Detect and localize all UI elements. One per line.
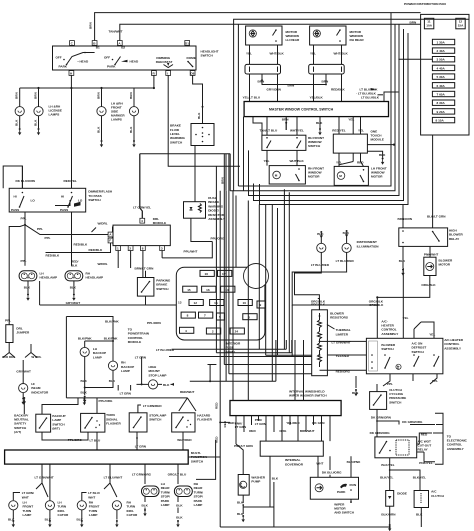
svg-text:PPL/WHT: PPL/WHT (184, 249, 198, 253)
svg-text:PUMP: PUMP (251, 480, 260, 484)
wire PPL horizontal to DRL area (9, 225, 25, 262)
node junction dots on bus (37, 87, 39, 89)
svg-text:YEL: YEL (429, 333, 435, 337)
turn signal flasher box (81, 413, 105, 432)
svg-text:BLK: BLK (81, 391, 88, 395)
svg-text:BLK: BLK (272, 477, 279, 481)
wire central vertical V216 (216, 166, 291, 353)
fuse 9 20A (432, 109, 454, 114)
svg-text:PPL: PPL (21, 259, 27, 263)
svg-text:RED: RED (249, 429, 256, 433)
svg-text:5 30A: 5 30A (437, 75, 446, 79)
svg-text:DK BLU/ORG: DK BLU/ORG (322, 470, 342, 474)
svg-text:MOTOR: MOTOR (308, 174, 320, 178)
wire panel crossing verticals (235, 196, 237, 268)
wire BRN riser D8 to bundle (225, 191, 227, 382)
svg-text:PNK/YEL -: PNK/YEL - (419, 461, 434, 465)
lamp front side marker RH (129, 107, 138, 116)
svg-text:RELAY: RELAY (418, 448, 429, 452)
bracket for electronic control assembly (435, 413, 443, 464)
svg-text:2: 2 (129, 246, 131, 250)
wire parking brake leads (145, 271, 147, 305)
svg-text:YEL: YEL (246, 52, 252, 56)
svg-text:PARK: PARK (337, 490, 346, 494)
svg-text:7: 7 (204, 314, 206, 318)
wire run y349 (172, 340, 287, 349)
wire lamp grounds with BLK labels (19, 116, 21, 128)
svg-text:24: 24 (235, 330, 239, 334)
svg-text:7 60A: 7 60A (437, 93, 446, 97)
svg-text:LT BLU/RED: LT BLU/RED (311, 263, 330, 267)
fuse 11 10A (424, 18, 433, 29)
svg-text:(M/T): (M/T) (52, 427, 59, 431)
svg-text:LT GRN/WHT: LT GRN/WHT (332, 341, 351, 345)
terminal 4 on DRL module (140, 218, 145, 223)
fuse 5 30A (432, 74, 454, 79)
svg-text:YEL: YEL (403, 316, 409, 320)
fuse 8 (181, 312, 195, 318)
svg-text:8: 8 (142, 246, 144, 250)
lamp LH TURN INDICATOR (45, 501, 54, 510)
fuse 10 (238, 300, 252, 306)
wire BLK/YEL below relay (389, 458, 391, 491)
wire inner frame (237, 24, 239, 186)
svg-text:YEL/RED: YEL/RED (336, 354, 350, 358)
wire BRN to right (285, 123, 287, 130)
wire RH rear connector to master switch (314, 74, 342, 102)
fuse 2 (243, 314, 257, 320)
interior fuse panel box (176, 267, 265, 340)
connector RH rear (309, 64, 345, 74)
svg-text:TAN/WHT: TAN/WHT (109, 30, 123, 34)
parking brake switch box (137, 278, 154, 297)
wire feed bus into hazard flasher (66, 397, 187, 399)
wire RED/BLK from dimmer (71, 212, 73, 266)
svg-text:16: 16 (206, 288, 210, 292)
svg-text:BRN: BRN (258, 79, 265, 83)
svg-text:ORG: ORG (279, 429, 287, 433)
lamp LH BACKUP (80, 347, 89, 356)
svg-text:M: M (275, 174, 278, 178)
svg-text:LT GRN/WHT: LT GRN/WHT (35, 475, 54, 479)
headlamp LH (19, 271, 37, 281)
fuse 9 (257, 301, 265, 308)
terminal D8 (190, 71, 195, 76)
fuse 2 40A (432, 48, 454, 53)
svg-text:BLK/LT GRN: BLK/LT GRN (427, 215, 446, 219)
wire wiper motor ground (350, 499, 352, 503)
defrost switch contacts (413, 354, 415, 356)
fuse 1 30A (432, 39, 454, 44)
lamp HI BEAM INDICATOR (19, 384, 28, 393)
svg-text:ORG/BLK: ORG/BLK (311, 299, 326, 303)
wire + ground RH front turn (81, 510, 83, 520)
svg-text:WHT/RED: WHT/RED (177, 438, 192, 442)
wire BRN riser from headlight switch B to top bus (95, 13, 421, 41)
lamp instrument illumination 1 (317, 243, 326, 252)
svg-text:BRN: BRN (129, 92, 133, 99)
svg-text:SWITCH: SWITCH (88, 198, 101, 202)
wire rear lamp grounds (144, 497, 146, 503)
wire LT BLU/BLK into master switch (384, 92, 398, 102)
svg-text:BLK/PNK: BLK/PNK (105, 320, 120, 324)
wire ORG/BLK junction down (376, 296, 378, 298)
svg-text:2 40A: 2 40A (437, 49, 446, 53)
wire 292 continues down (291, 305, 293, 357)
wire from brake fluid switch down to dual brake assembly (194, 146, 196, 202)
svg-text:3 50A: 3 50A (437, 58, 446, 62)
wire BLK/PNK riser + backup lamp feeds (66, 317, 113, 398)
svg-text:RED/WHT: RED/WHT (180, 390, 195, 394)
svg-text:10A: 10A (426, 24, 432, 28)
wire lamp bus (20, 87, 134, 89)
svg-text:15: 15 (187, 288, 191, 292)
svg-text:MASTER WINDOW CONTROL SWITC: MASTER WINDOW CONTROL SWITCH (269, 108, 334, 112)
wire left margin riser (3, 166, 22, 188)
wire license lamp 2 lead (38, 88, 40, 107)
svg-text:DOME: DOME (187, 56, 196, 60)
wire BRN vertical mid (225, 154, 227, 191)
svg-text:DK GRN: DK GRN (312, 421, 325, 425)
wire from AC heater to clutch switch (376, 384, 378, 392)
svg-text:PPL: PPL (21, 217, 27, 221)
wire nested frame lines bottom of window section (238, 13, 391, 186)
svg-text:10: 10 (243, 301, 247, 305)
svg-text:RELAY: RELAY (449, 237, 460, 241)
terminal D1 (185, 41, 190, 46)
wire marker lamp 1 lead (101, 88, 103, 107)
wire LT GRN below stoplamp (136, 432, 138, 450)
svg-text:BRN: BRN (33, 92, 37, 99)
svg-text:4: 4 (141, 219, 143, 223)
wire hi beam ground (22, 393, 24, 398)
svg-text:RED/YEL: RED/YEL (64, 179, 78, 183)
svg-text:GRY/WHT: GRY/WHT (16, 370, 31, 374)
svg-text:BLK: BLK (237, 501, 244, 505)
svg-text:BLK/YEL: BLK/YEL (381, 463, 394, 467)
fuse 2b (206, 328, 220, 334)
rear lamp LH (stadium) (142, 486, 160, 497)
dual brake warning diode/resistor assembly box (184, 202, 206, 219)
svg-text:YEL/LT BLU: YEL/LT BLU (243, 96, 261, 100)
svg-text:PPL: PPL (5, 319, 11, 323)
svg-text:B1: B1 (96, 46, 100, 50)
wire instrument lamp 2 routing (292, 258, 377, 305)
fuse 12 15A (456, 18, 465, 29)
wire license lamp 1 lead (19, 88, 21, 107)
fuse 16b (202, 286, 216, 292)
wire PPL down to headlamp (24, 225, 26, 266)
svg-text:BRN: BRN (322, 79, 329, 83)
svg-text:ASSEMBLY: ASSEMBLY (381, 332, 399, 336)
svg-text:GOVERNOR: GOVERNOR (285, 462, 304, 466)
stoplamp switch box (129, 413, 147, 432)
fuse 24 (230, 328, 244, 334)
svg-text:LT BLU/WHT: LT BLU/WHT (104, 475, 123, 479)
wire washer link (243, 506, 274, 508)
svg-text:HI: HI (14, 195, 17, 199)
svg-text:RED/YEL: RED/YEL (332, 128, 346, 132)
wire to hi beam indicator (22, 360, 24, 384)
wire run y364 left tail (208, 364, 217, 366)
svg-text:12: 12 (194, 301, 198, 305)
terminal A (117, 41, 122, 46)
headlamp RH (65, 271, 83, 281)
svg-text:PPL/ORG: PPL/ORG (68, 438, 83, 442)
fuse 12 (189, 300, 203, 306)
svg-text:BLK: BLK (142, 504, 149, 508)
wire BLK ground left of box (355, 376, 357, 388)
clutch cycling pressure switch box (370, 392, 387, 410)
blower motor box (424, 257, 436, 275)
svg-text:WHT/BLK: WHT/BLK (334, 52, 349, 56)
fuse 16 (200, 270, 214, 276)
svg-text:W/DRL: W/DRL (98, 222, 108, 226)
svg-text:MODULE: MODULE (371, 138, 384, 142)
svg-text:13: 13 (178, 301, 182, 305)
wire headlamp grounds (27, 281, 29, 294)
wire RED/ORG tap (320, 369, 367, 371)
svg-text:1: 1 (117, 246, 119, 250)
svg-text:MOTOR: MOTOR (371, 175, 383, 179)
svg-text:YEL/RED: YEL/RED (286, 421, 300, 425)
wire horizontal link under brake fluid (140, 153, 230, 155)
DRL terminals below (116, 246, 121, 251)
svg-text:YEL: YEL (336, 161, 342, 165)
svg-text:DIODE: DIODE (397, 491, 407, 495)
wire PPL from dimmer to headlamps (24, 212, 26, 227)
motor window RH rear box (310, 26, 346, 45)
svg-text:SWITCH: SWITCH (308, 144, 321, 148)
wire YEL/RED tap (327, 354, 366, 356)
terminal C (70, 41, 75, 46)
svg-text:LT GRN: LT GRN (235, 425, 247, 429)
svg-text:W/DRL: W/DRL (98, 262, 108, 266)
svg-text:BLK: BLK (33, 119, 37, 126)
power distribution box outline (421, 14, 469, 135)
connector LH rear (245, 64, 281, 74)
svg-text:YEL: YEL (264, 159, 270, 163)
svg-text:INDICATOR: INDICATOR (31, 390, 49, 394)
svg-text:POWER DISTRIBUTION BOX: POWER DISTRIBUTION BOX (404, 2, 447, 6)
svg-text:PASS: PASS (11, 208, 19, 212)
wire flasher feed (96, 398, 98, 414)
wire GRY/WHT left drop (39, 281, 41, 305)
backup lamp switch box (36, 414, 51, 432)
wire run y381 (190, 340, 276, 381)
wire LT GRN/YEL riser to DRL module (140, 154, 143, 219)
svg-text:ASSEMBLY: ASSEMBLY (444, 346, 462, 350)
high blower relay box (399, 228, 448, 247)
svg-text:SWITCH: SWITCH (149, 418, 162, 422)
svg-text:LT BLU/RED: LT BLU/RED (156, 348, 175, 352)
lamp RH TURN INDICATOR (112, 501, 121, 510)
wire stub multi-function right to wiper (188, 440, 220, 479)
svg-text:PASS: PASS (60, 208, 68, 212)
wire AC heater outputs PPL (383, 374, 413, 386)
wire dual brake assembly bottom to PPL/ORG run (191, 218, 212, 241)
svg-text:LT GRN: LT GRN (120, 392, 132, 396)
wire RED/BLK jog to right (46, 242, 111, 253)
svg-text:PPL/ORG: PPL/ORG (99, 399, 114, 403)
wire run y356 (169, 356, 312, 358)
wire switch to motor (267, 150, 297, 165)
washer pump box (238, 475, 249, 496)
svg-text:BRN: BRN (15, 92, 19, 99)
svg-text:LAMP: LAMP (89, 513, 98, 517)
svg-text:PPL: PPL (45, 236, 51, 240)
lamp RH FRONT TURN (77, 501, 86, 510)
svg-text:BLK: BLK (379, 153, 386, 157)
svg-text:D8: D8 (190, 71, 194, 75)
wire DK BLU/ORN lead (21, 166, 23, 188)
svg-text:FLASHER: FLASHER (197, 418, 212, 422)
wire DRL terminal leads down (118, 251, 162, 284)
svg-text:1 30A: 1 30A (437, 41, 446, 45)
wire wiper switch outputs (236, 416, 330, 444)
wire RH rear motor leads (314, 45, 342, 64)
A/C heater control assembly box (366, 338, 443, 374)
svg-text:LAMP: LAMP (194, 503, 203, 507)
ground marker lamp 1 (100, 140, 103, 147)
wire BLK/ORN + BLK below (389, 506, 391, 522)
wire marker lamp 2 lead (133, 88, 135, 107)
svg-text:PPL/ORG: PPL/ORG (211, 237, 226, 241)
svg-text:LAMP: LAMP (121, 369, 130, 373)
svg-text:FLASHER: FLASHER (106, 422, 121, 426)
svg-text:PPL: PPL (432, 379, 438, 383)
svg-text:ORG/BLK: ORG/BLK (369, 299, 384, 303)
svg-text:RED/ORG: RED/ORG (336, 369, 351, 373)
svg-text:LAMPS: LAMPS (111, 118, 122, 122)
wire from I terminal down and right (168, 75, 240, 166)
svg-text:DK BLU/ORN: DK BLU/ORN (16, 179, 36, 183)
diode box (386, 491, 394, 507)
svg-text:2: 2 (212, 330, 214, 334)
svg-text:(A/T): (A/T) (14, 430, 21, 434)
svg-text:RED/BLK: RED/BLK (46, 254, 61, 258)
blower switch contacts (371, 354, 373, 356)
svg-text:GRY/WHT: GRY/WHT (66, 301, 81, 305)
master window control switch box (244, 102, 388, 117)
svg-text:ORG/BLK: ORG/BLK (421, 283, 436, 287)
one touch module box (333, 134, 367, 153)
wire YEL jog right (414, 322, 434, 338)
wire central vertical V228 (229, 154, 312, 374)
wire TAN/WHT riser from headlight switch A to fuse 11 (120, 24, 425, 40)
svg-text:DK GRN/ORG: DK GRN/ORG (370, 431, 391, 435)
svg-text:WHT/BLK: WHT/BLK (290, 159, 305, 163)
svg-text:LT BLU/RED: LT BLU/RED (336, 259, 355, 263)
svg-text:STOP LAMP: STOP LAMP (149, 373, 167, 377)
svg-text:SWITCH: SWITCH (170, 140, 183, 144)
wire BLK right of washer pump (273, 482, 275, 507)
lamp license LH (15, 107, 24, 116)
svg-text:RED: RED (223, 420, 227, 427)
lamp HIGH MOUNT STOP (148, 380, 157, 389)
fuse 7 60A (432, 91, 454, 96)
wire LT GRN feed to stop lamp (142, 360, 149, 384)
svg-text:LT GRN: LT GRN (135, 444, 147, 448)
wire from H to lamp bus (70, 75, 72, 88)
svg-text:MODULE: MODULE (128, 340, 141, 344)
DRL module box (113, 225, 170, 246)
svg-text:BLK: BLK (24, 286, 31, 290)
svg-text:BLK/YEL: BLK/YEL (413, 476, 426, 480)
fuse 15 (183, 286, 197, 292)
svg-text:WHT: WHT (316, 462, 323, 466)
svg-text:LAMPS: LAMPS (49, 113, 60, 117)
svg-text:RH REAR: RH REAR (350, 38, 365, 42)
blower resistors box (312, 310, 328, 376)
svg-text:YEL/BLK: YEL/BLK (310, 96, 324, 100)
wire central vertical V220 (220, 191, 230, 527)
svg-text:BLK/PNK: BLK/PNK (78, 336, 93, 340)
wire PPL/WHT run (162, 242, 212, 258)
svg-text:8 10A: 8 10A (436, 119, 445, 123)
svg-text:BLK: BLK (96, 126, 100, 133)
fuse 6 40A (432, 83, 454, 88)
svg-text:PPL: PPL (387, 382, 393, 386)
svg-text:OFF: OFF (56, 55, 62, 59)
svg-text:BLK: BLK (71, 264, 78, 268)
wire relay outputs (403, 246, 430, 268)
svg-text:CATOR: CATOR (58, 513, 69, 517)
terminal I (166, 71, 171, 76)
svg-text:BLK: BLK (15, 119, 19, 126)
svg-text:W/O DRL: W/O DRL (2, 355, 16, 359)
svg-text:RED/BLK: RED/BLK (331, 87, 346, 91)
wire WHT/RED below hazard (182, 432, 184, 450)
svg-text:BLK: BLK (176, 516, 183, 520)
hazard flasher box (172, 413, 195, 432)
svg-text:RED: RED (357, 161, 364, 165)
svg-text:CATOR: CATOR (127, 513, 138, 517)
wire master switch outputs (253, 117, 267, 138)
svg-text:BLK: BLK (197, 112, 201, 119)
wire PPL branch 1 (25, 225, 108, 235)
wire DK GRN/ORG branch right (377, 421, 435, 425)
wire bottom bus (220, 507, 390, 527)
wire GRY/WHT bus (40, 304, 240, 306)
fuse 7 (199, 312, 213, 318)
svg-text:BLK: BLK (70, 286, 77, 290)
svg-text:HI: HI (61, 195, 64, 199)
wire RED into relay (417, 433, 432, 444)
svg-text:RESISTORS: RESISTORS (330, 316, 348, 320)
terminal B (92, 41, 97, 46)
svg-text:BLK/PNK: BLK/PNK (347, 460, 362, 464)
svg-text:LT BLU: LT BLU (90, 439, 102, 443)
svg-text:SWITCH: SWITCH (191, 459, 204, 463)
svg-text:WHT/BLK: WHT/BLK (270, 52, 285, 56)
svg-text:LT GRN: LT GRN (255, 422, 267, 426)
svg-text:BLK: BLK (129, 126, 133, 133)
A/C WOT cut-out relay box (375, 437, 417, 458)
internal governor box (260, 441, 323, 456)
wire from R down through bus (134, 75, 154, 88)
lh front window motor box (334, 166, 368, 185)
wire BLK/PNK to wiper motor (350, 456, 352, 477)
svg-text:ORG/LT BLU: ORG/LT BLU (168, 472, 187, 476)
svg-text:ASSEMBLY: ASSEMBLY (208, 217, 226, 221)
svg-text:SWITCH: SWITCH (389, 400, 402, 404)
DRL jumper (6, 325, 13, 343)
svg-text:LH REAR: LH REAR (286, 38, 301, 42)
svg-text:JUMPER: JUMPER (16, 331, 30, 335)
motor window LH rear box (246, 26, 282, 45)
svg-text:CLUTCH: CLUTCH (431, 494, 444, 498)
